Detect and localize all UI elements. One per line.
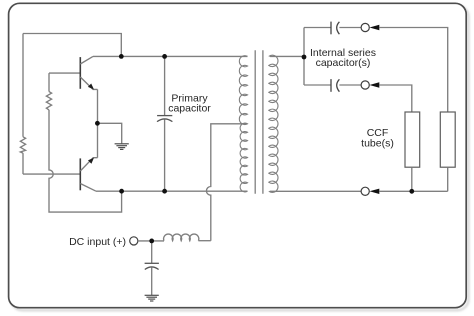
node D (bottom rail / R1 feedback junction) [119,189,124,194]
wire right tube bottom lead [447,167,449,191]
resistor R1 [46,92,51,110]
wire top rail (Q1 collector to primary top) [93,55,248,57]
connector output bottom [361,187,369,195]
node F (DC input / filter capacitor junction) [149,239,154,244]
node G (secondary top / series capacitors junction) [302,55,307,60]
wire R2 top lead [22,34,24,137]
transformer T1 secondary winding [269,55,278,192]
connector DC input [130,237,138,245]
wire DC node to filter capacitor [151,241,153,263]
wire R1 column upper [48,73,50,92]
svg-text:DC input (+): DC input (+) [69,236,126,248]
wire top branch right [379,28,447,113]
transformer T1 center tap wire with hop over bottom rail [206,124,247,241]
capacitor DC filter [145,263,159,269]
connector output top [361,23,369,31]
node E (bottom rail / primary capacitor bottom) [162,189,167,194]
wire top branch middle [339,27,361,29]
inductor L1 [164,234,199,241]
primary capacitor [157,116,172,122]
svg-text:capacitor: capacitor [168,102,211,114]
wire R1 column lower with hop over Q2 base wire [49,110,122,212]
internal series capacitor bottom [331,79,339,92]
CCF tube left [405,112,420,167]
wire secondary bottom return [270,190,361,192]
internal series capacitor top [331,22,339,35]
wire R2 bottom lead [22,153,24,174]
ground (emitters) [115,144,129,150]
wire emitter to ground [98,123,122,143]
transistor Q1 [80,56,97,89]
wire bottom return right [379,190,447,192]
connector output middle [361,81,369,89]
capacitor primary lead bottom [164,120,166,192]
wire bottom rail (Q2 collector to primary bottom) [96,190,248,192]
wire DC input to inductor [138,240,164,242]
wire top branch left [304,27,331,29]
node H (tube return junction) [409,189,414,194]
wire secondary junction vertical [303,28,305,86]
wire Q1 base [49,72,80,74]
ground (DC input) [145,295,159,301]
node C (common emitter junction) [95,121,100,126]
svg-text:tube(s): tube(s) [361,138,394,150]
resistor R2 [20,137,25,153]
node B (top rail / primary capacitor top) [162,54,167,59]
wire left tube bottom lead [411,167,413,191]
wire bottom branch middle [339,84,361,86]
wire filter capacitor to ground [151,267,153,295]
wire feedback R2 to node A on top rail [23,34,121,57]
wire Q2 base [23,173,80,175]
wire bottom branch right [379,85,412,112]
wire bottom branch left [304,84,331,86]
transistor Q2 [80,158,97,192]
CCF tube right [440,112,455,167]
svg-text:capacitor(s): capacitor(s) [316,57,371,69]
transformer T1 primary winding [239,56,247,192]
wire secondary top lead [270,55,304,57]
node A (top rail / R2 feedback junction) [119,54,124,59]
transformer T1 core [255,50,263,194]
capacitor primary lead top [164,56,166,115]
wire inductor to center tap [198,240,210,242]
wire emitter common [97,89,99,157]
